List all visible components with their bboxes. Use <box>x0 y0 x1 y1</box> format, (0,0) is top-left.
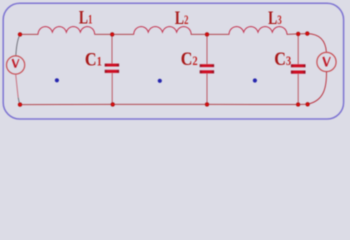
capacitor C2 <box>200 64 214 73</box>
inductor L1 <box>38 27 95 35</box>
node top left <box>18 33 22 37</box>
node bottom left <box>18 103 22 107</box>
node B marker blue <box>158 79 162 83</box>
source V2 circle <box>317 52 336 71</box>
wire C1 upper branch <box>111 34 113 63</box>
wire bottom rail <box>20 103 308 105</box>
wire top rail left segment <box>20 33 38 35</box>
node L1-C1 junction <box>110 33 114 37</box>
node L3-C3 junction <box>296 32 300 36</box>
wire C3 lower branch <box>297 74 299 105</box>
node C marker blue <box>253 78 257 82</box>
node C1 bottom <box>111 103 115 107</box>
node bottom right V2 <box>306 103 310 107</box>
node A marker blue <box>55 78 59 82</box>
source V1 circle <box>7 56 25 74</box>
wire source V2 bottom lead <box>308 72 327 104</box>
wire between L1 and L2 <box>95 33 134 35</box>
wire C1 lower branch <box>111 73 113 105</box>
wire between L2 and L3 <box>191 33 229 35</box>
capacitor C1 <box>105 64 119 73</box>
wire C3 upper branch <box>297 34 299 64</box>
wire C2 upper branch <box>206 34 208 64</box>
wire top rail right segment <box>287 33 307 36</box>
wire source V1 bottom lead <box>16 74 19 97</box>
border frame <box>3 3 343 119</box>
wire source V2 top lead <box>307 34 326 53</box>
node top right V2 <box>306 32 310 36</box>
inductor L2 <box>134 27 192 35</box>
capacitor C3 <box>291 64 306 73</box>
node C3 bottom <box>296 103 300 107</box>
wire C2 lower branch <box>206 73 208 104</box>
wire source V1 top lead <box>16 35 20 56</box>
wire source V1 bottom lead end <box>18 98 20 105</box>
node L2-C2 junction <box>205 33 209 37</box>
label V1 letter <box>13 59 19 68</box>
inductor L3 <box>229 27 287 35</box>
node C2 bottom <box>205 103 209 107</box>
label V2 letter <box>323 57 330 66</box>
